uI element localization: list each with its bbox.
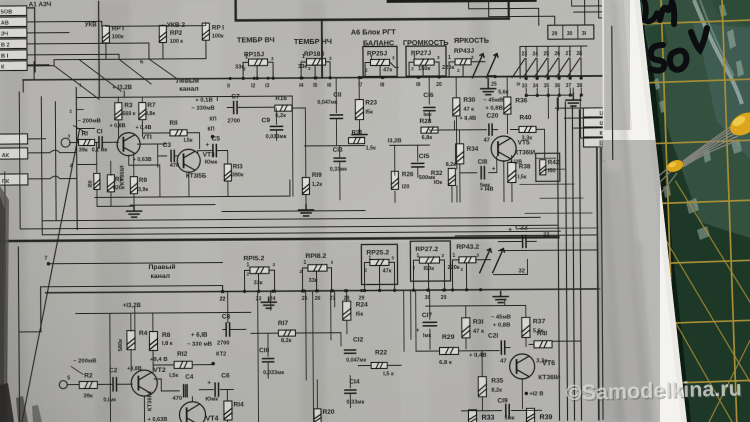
- mat diagonal guides: [659, 178, 750, 422]
- svg-text:29: 29: [552, 31, 558, 37]
- copier smudges bottom-left: [0, 383, 42, 422]
- resistor RP1 (left): [102, 26, 109, 43]
- potentiometer RP25J box: [363, 46, 397, 76]
- connector box 5ОВ: [0, 6, 27, 16]
- junction dots on bottom bus: [243, 290, 246, 293]
- pin I4: [301, 76, 304, 79]
- wire mid bus 2: [130, 204, 215, 207]
- wire emitter VT3 down: [160, 165, 189, 197]
- pin II: [229, 77, 232, 80]
- pin 29b: [360, 289, 363, 292]
- long diagonal wire left: [20, 130, 82, 422]
- diagonal merge wires: [54, 59, 177, 100]
- transistor VT1: [117, 133, 140, 156]
- switch block upper contacts 29 30 31: [236, 0, 509, 20]
- resistor R5a 180: [94, 173, 100, 189]
- wires VT2/VT4 stage: [110, 313, 193, 422]
- pin I9: [418, 76, 421, 79]
- connector box АВ: [0, 17, 27, 27]
- wire collector VT1 to VT3: [129, 144, 167, 165]
- schematic border redraw over margin: [596, 26, 614, 420]
- pin 20: [438, 76, 441, 79]
- margin speckle band: [600, 170, 652, 422]
- connector box К: [0, 61, 27, 71]
- wire main horizontal bus (bottom): [46, 289, 656, 293]
- contact 28: [580, 46, 582, 56]
- pin 29b: [442, 288, 445, 291]
- resistor R34: [456, 144, 464, 164]
- potentiometer RP27J box: [406, 46, 446, 76]
- ground under pin 28: [493, 292, 508, 303]
- pot slash symbols RP43.2: [480, 249, 492, 273]
- right area horizontal stubs: [520, 158, 597, 229]
- pin 25b: [303, 289, 306, 292]
- resistor R8: [149, 331, 157, 350]
- copier dark band left edge: [0, 186, 9, 422]
- resistor R33: [468, 410, 476, 422]
- resistor R14: [224, 401, 232, 420]
- mat grid horizontal y262: [632, 260, 750, 265]
- potentiometer RP25.2 box: [361, 244, 397, 284]
- mat edge shadow along paper: [640, 0, 691, 422]
- black bar top edge: [387, 0, 537, 3]
- slight darkening lower print half: [0, 242, 625, 422]
- bright paper edge highlight: [614, 0, 681, 422]
- potentiometer RP27.2 box: [410, 241, 450, 281]
- junction dots on bus: [242, 77, 245, 80]
- white paper margin right: [600, 0, 688, 422]
- pin I7: [360, 76, 363, 79]
- component wire leads fan: [683, 116, 746, 167]
- connector box ЦМ: [584, 138, 612, 147]
- pin 30b: [426, 289, 429, 292]
- resistor R20: [314, 409, 321, 422]
- resistor R7: [139, 103, 146, 120]
- pin 26b: [316, 289, 319, 292]
- box R42: [536, 153, 560, 181]
- pin 22b: [221, 290, 224, 293]
- mat grid horizontal y202: [630, 200, 750, 205]
- wires VT6 stage: [416, 289, 542, 411]
- connector box ПК: [0, 174, 28, 185]
- mat grid horizontal y322: [634, 320, 750, 325]
- mat grid horizontal y382: [636, 380, 750, 385]
- pin I2: [253, 77, 256, 80]
- svg-text:R40: R40: [519, 114, 531, 121]
- pin 28b: [345, 289, 348, 292]
- connector box mid unlabeled: [0, 134, 28, 144]
- cutting mat base: [640, 0, 750, 422]
- dark mat blob: [646, 24, 668, 48]
- resistor R13: [224, 164, 231, 181]
- mat grid horizontal y142: [628, 140, 750, 145]
- photo vignette bottom-left: [0, 100, 120, 422]
- transistor VT5: [491, 136, 516, 161]
- transistor VT2: [131, 370, 157, 396]
- contact 26: [558, 46, 560, 56]
- mat grid lines yellow: [623, 0, 750, 422]
- connector box АК: [0, 148, 28, 159]
- pin I6: [329, 76, 332, 79]
- right channel box top: [41, 286, 223, 332]
- wires VT5 stage: [429, 77, 512, 203]
- wire main horizontal bus (top): [23, 76, 612, 80]
- ground at switch block: [481, 79, 496, 95]
- wires below C22: [455, 235, 597, 251]
- yellow capacitor body right edge: [726, 108, 750, 140]
- contact 24: [536, 46, 538, 56]
- connector box ЗЧ: [0, 28, 27, 38]
- top rail VT6 stage: [426, 300, 526, 306]
- svg-text:26: 26: [554, 51, 560, 57]
- wires from upper contact box: [469, 0, 604, 29]
- wires bottom mid: [258, 291, 332, 422]
- connector box В I: [0, 50, 27, 60]
- transistor VT3: [177, 149, 200, 172]
- svg-text:25: 25: [543, 51, 549, 57]
- connector box Цш: [583, 108, 611, 117]
- wires from АК ПК with contacts: [28, 139, 77, 179]
- wire left frame lines bottom: [5, 172, 7, 422]
- resistor R38: [508, 162, 516, 182]
- leads continuing past small capacitor: [648, 168, 677, 194]
- contact 25: [547, 46, 549, 56]
- wire bus right of pots: [495, 75, 612, 78]
- connector box КОР: [584, 128, 612, 137]
- resistor R39: [526, 408, 534, 422]
- wire mid bus 1: [95, 180, 290, 197]
- plastic wrinkle streak: [694, 0, 742, 104]
- wire top-left frame: [0, 1, 99, 97]
- margin smudge streaks: [612, 0, 650, 422]
- photocopy streak bands: [0, 0, 490, 422]
- pin 27b: [331, 289, 334, 292]
- svg-text:28: 28: [576, 51, 582, 57]
- mat grid horizontal y22: [624, 20, 750, 25]
- connector box Шп: [583, 118, 611, 127]
- pin 24b: [271, 290, 274, 293]
- wire left frame bottom: [18, 247, 41, 422]
- resistor R23: [355, 100, 363, 120]
- left channel box: [76, 87, 95, 229]
- resistor R3: [115, 103, 122, 120]
- resistor R37: [522, 317, 530, 337]
- svg-text:23: 23: [521, 51, 527, 57]
- transistor VT6: [510, 354, 535, 379]
- marker writing ЧМ: [644, 0, 707, 71]
- input socket: [61, 138, 70, 147]
- wires from connector column: [27, 21, 149, 65]
- wire bus stub left: [23, 62, 34, 92]
- mat grid vertical x668: [661, 0, 676, 422]
- resistor RP2: [159, 25, 166, 42]
- svg-text:27: 27: [565, 51, 571, 57]
- plastic glare patches: [654, 4, 744, 240]
- pin I8: [382, 76, 385, 79]
- wire left verticals: [19, 92, 56, 235]
- resistor R31: [462, 318, 470, 338]
- mat grid horizontal y81: [626, 79, 750, 84]
- plastic covered lighter area (top): [640, 0, 750, 238]
- wire mid bus 3: [20, 209, 560, 235]
- yellow capacitor body small: [665, 158, 685, 174]
- marker writing 50V: [650, 45, 664, 71]
- svg-text:24: 24: [532, 51, 538, 57]
- pin 23b: [257, 290, 260, 293]
- resistor R5: [107, 175, 114, 192]
- resistor RP1 (right): [202, 23, 209, 40]
- svg-text:30: 30: [567, 31, 573, 37]
- pin I5: [315, 76, 318, 79]
- resistor R32: [448, 168, 455, 185]
- svg-text:22: 22: [543, 232, 549, 238]
- resistor R24: [343, 301, 351, 320]
- ground bottom pots: [261, 297, 276, 308]
- right vertical bus wires: [557, 98, 581, 420]
- resistor R35: [478, 377, 486, 397]
- mat grid vertical x729: [722, 0, 737, 422]
- schematic right border: [597, 148, 603, 420]
- resistor R36: [504, 97, 511, 114]
- pot slash symbols RP43J: [472, 54, 484, 78]
- contact 23: [525, 46, 527, 56]
- connector box В 2: [0, 39, 27, 49]
- input socket bottom: [59, 381, 67, 389]
- transistor VT4: [179, 402, 205, 422]
- wires UKV network: [27, 21, 149, 66]
- contact 27: [569, 46, 571, 56]
- svg-text:3I: 3I: [582, 31, 587, 37]
- resistor R4: [127, 331, 135, 350]
- pin I3: [267, 77, 270, 80]
- ground left amp: [127, 206, 142, 217]
- resistor R9: [130, 177, 137, 194]
- thick divider between channels: [0, 237, 558, 241]
